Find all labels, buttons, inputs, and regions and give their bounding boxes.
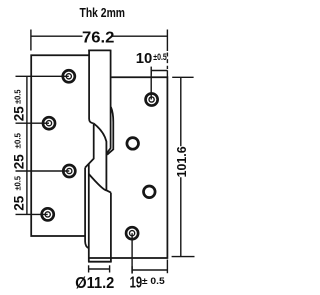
svg-text:Thk 2mm: Thk 2mm — [80, 5, 126, 20]
svg-text:19: 19 — [130, 275, 143, 292]
dimension 76.2 line — [31, 30, 168, 52]
dimension 19 line — [132, 233, 167, 273]
svg-text:Ø11.2: Ø11.2 — [75, 275, 114, 292]
label 25 +-0.5 third (rotated) — [11, 176, 27, 211]
svg-text:101.6: 101.6 — [175, 146, 189, 177]
svg-text:±0.5: ±0.5 — [12, 89, 22, 104]
svg-text:25: 25 — [11, 196, 27, 211]
right leaf plate outline — [89, 77, 167, 258]
dimension 10 line — [151, 67, 167, 100]
svg-text:25: 25 — [11, 154, 27, 169]
screw hole L2 — [43, 117, 55, 129]
knuckle lower helix arc — [89, 174, 107, 190]
svg-text:±0.5: ±0.5 — [12, 176, 22, 191]
screw hole L1 — [63, 70, 75, 82]
label 101.6 (rotated) — [175, 146, 189, 177]
dashed extension below right 76.2 tick — [166, 53, 168, 70]
knuckle inner-left upper line — [85, 123, 94, 167]
screw hole R4 — [126, 227, 138, 239]
label 25 +-0.5 first (rotated) — [11, 89, 27, 121]
dimension 101.6 line — [172, 77, 195, 256]
screw hole R2 — [127, 138, 139, 150]
svg-text:10: 10 — [136, 50, 153, 67]
label 25 +-0.5 second (rotated) — [11, 133, 27, 170]
screw hole R1 — [146, 93, 158, 105]
knuckle barrel top edge — [88, 49, 110, 51]
screw hole R3 — [144, 186, 156, 198]
knuckle upper helix arc — [94, 123, 111, 192]
knuckle barrel bottom edge — [88, 261, 112, 263]
left leaf plate outline — [31, 55, 89, 236]
screw hole L4 — [42, 208, 54, 220]
knuckle lower-left barrel edge — [88, 164, 90, 262]
svg-text:76.2: 76.2 — [82, 29, 115, 46]
dimension diameter 11.2 line — [89, 265, 110, 272]
svg-text:25: 25 — [11, 106, 27, 121]
knuckle outer-left lower edge — [85, 168, 89, 249]
dimension 25 chain lines — [16, 76, 70, 214]
svg-text:± 0.5: ± 0.5 — [142, 276, 166, 287]
knuckle lower-right barrel edge — [110, 193, 112, 262]
knuckle barrel upper-right edge — [107, 50, 111, 154]
svg-text:±0.5: ±0.5 — [153, 52, 167, 62]
svg-text:±0.5: ±0.5 — [12, 133, 22, 149]
knuckle barrel upper-left edge — [89, 50, 94, 124]
screw hole L3 — [63, 165, 75, 177]
knuckle outer-right line — [107, 107, 113, 155]
